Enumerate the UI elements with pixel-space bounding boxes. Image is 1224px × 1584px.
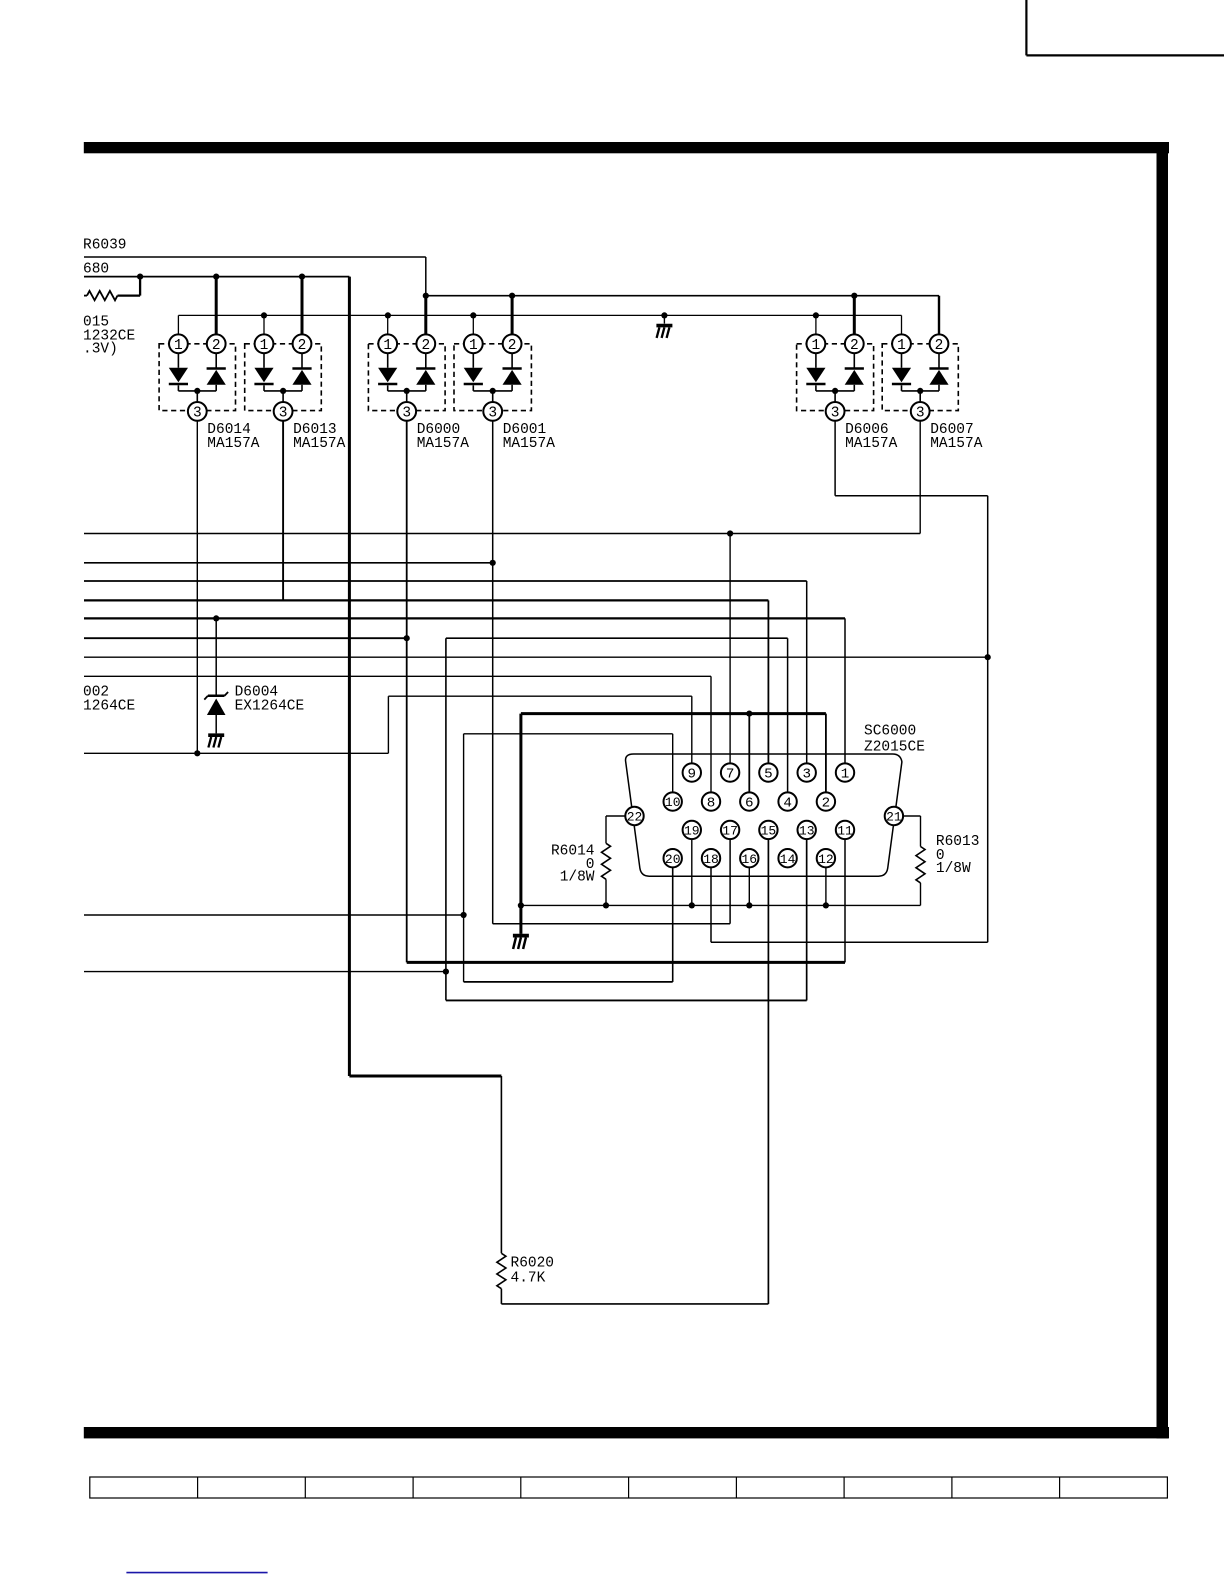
wire bus A (to D6007 pin3, pin7) <box>84 534 920 764</box>
label D6002 (cut) <box>83 685 109 701</box>
junction dot <box>443 969 449 975</box>
wire pin13 drop <box>806 839 808 1000</box>
svg-text:7: 7 <box>726 767 735 783</box>
connector pin 19 <box>683 821 701 839</box>
svg-text:680: 680 <box>83 262 109 278</box>
junction dot <box>461 912 467 918</box>
connector pin 2 <box>817 792 835 811</box>
svg-text:1: 1 <box>260 338 269 354</box>
connector pin 15 <box>759 821 777 839</box>
label 4.7K <box>511 1271 546 1287</box>
wire D6000 pin3 riser <box>406 421 408 963</box>
wire ground feed thick <box>521 714 826 934</box>
svg-text:2: 2 <box>935 338 944 354</box>
svg-text:R6020: R6020 <box>511 1256 555 1272</box>
border frame bottom bar <box>84 1427 1169 1438</box>
connector pin 1 <box>836 763 854 782</box>
label R6039 <box>83 238 127 254</box>
connector SC6000 outline <box>626 754 902 876</box>
wire D6006 pin3 route <box>711 421 988 943</box>
label EX1264CE <box>235 699 305 715</box>
connector pin 9 <box>683 763 701 782</box>
svg-text:MA157A: MA157A <box>417 436 470 452</box>
dual diode D6014 <box>159 334 235 421</box>
label EX1232CE (cut) <box>83 329 135 345</box>
svg-text:11: 11 <box>837 823 853 838</box>
svg-text:MA157A: MA157A <box>503 436 556 452</box>
svg-text:1264CE: 1264CE <box>83 699 135 715</box>
svg-text:MA157A: MA157A <box>845 436 898 452</box>
junction dot <box>746 902 752 908</box>
svg-text:6: 6 <box>745 796 754 812</box>
wire bus G (to D6006 net) <box>84 656 988 658</box>
connector pin 4 <box>778 792 796 811</box>
junction dot <box>661 312 667 318</box>
svg-text:12: 12 <box>818 852 834 867</box>
svg-text:15: 15 <box>761 823 777 838</box>
label D6004 <box>235 685 279 701</box>
revision table <box>90 1477 1168 1498</box>
dual diode D6000 <box>368 334 445 421</box>
junction dot <box>137 274 143 280</box>
wire pin16 drop <box>748 867 750 905</box>
wire thick riser D6014 pin2 <box>215 277 218 335</box>
wire net pin 11 thick <box>407 839 845 962</box>
junction dot <box>299 274 305 280</box>
wire bus H (to pin 8) <box>84 676 711 792</box>
wire net pin2 row <box>426 295 939 297</box>
wire D6001 pin3 riser <box>493 421 730 924</box>
junction dot <box>385 312 391 318</box>
svg-text:14: 14 <box>780 852 796 867</box>
junction dot <box>518 902 524 908</box>
junction dot <box>509 293 515 299</box>
connector pin 10 <box>664 792 682 810</box>
svg-text:3: 3 <box>916 405 925 421</box>
junction dot <box>851 293 857 299</box>
wire thick net to R6020 <box>349 277 501 1076</box>
border frame top bar <box>84 142 1169 153</box>
svg-text:3: 3 <box>402 405 411 421</box>
svg-text:4: 4 <box>783 796 792 812</box>
wire net pin1 ground row <box>178 315 901 334</box>
junction dot <box>689 902 695 908</box>
connector pin 3 <box>798 763 816 782</box>
wire pin15 drop <box>767 839 769 1304</box>
resistor R6020 <box>497 839 769 1304</box>
resistor R6039 <box>84 277 140 301</box>
svg-text:2: 2 <box>212 338 221 354</box>
junction dot <box>423 293 429 299</box>
wire D6014 pin3 riser <box>196 421 198 754</box>
wire bus B (to D6001 pin3) <box>84 562 493 564</box>
wire net pins 10-20 <box>464 734 673 982</box>
svg-text:2: 2 <box>850 338 859 354</box>
svg-text:3: 3 <box>802 767 811 783</box>
svg-text:3: 3 <box>831 405 840 421</box>
connector pin 14 <box>778 849 796 867</box>
label EX1264CE D6002 (cut) <box>83 699 135 715</box>
wire ground bus <box>521 904 921 906</box>
junction dot <box>213 615 219 621</box>
junction dot <box>603 902 609 908</box>
dual diode D6006 <box>797 334 874 421</box>
label R6014 <box>551 844 595 886</box>
svg-text:3: 3 <box>488 405 497 421</box>
resistor R6013 <box>903 816 925 905</box>
connector pin 7 <box>721 763 739 782</box>
svg-text:MA157A: MA157A <box>930 436 983 452</box>
svg-text:16: 16 <box>741 852 757 867</box>
connector pin 6 <box>740 792 758 811</box>
svg-text:1: 1 <box>897 338 906 354</box>
junction dot <box>823 902 829 908</box>
label D6013 <box>293 422 346 452</box>
connector pin 13 <box>798 821 816 839</box>
connector pin 17 <box>721 821 739 839</box>
chassis ground (D6004) <box>208 735 224 747</box>
svg-text:20: 20 <box>665 852 681 867</box>
svg-text:1: 1 <box>174 338 183 354</box>
wire pin12 drop <box>825 867 827 905</box>
svg-text:2: 2 <box>822 796 831 812</box>
junction dot <box>746 711 752 717</box>
border frame right bar <box>1157 142 1169 1438</box>
junction dot <box>194 750 200 756</box>
junction dot <box>490 560 496 566</box>
connector pin 8 <box>702 792 720 811</box>
junction dot <box>727 530 733 536</box>
svg-text:3: 3 <box>279 405 288 421</box>
svg-text:17: 17 <box>722 823 738 838</box>
svg-text:1/8W: 1/8W <box>936 861 971 877</box>
junction dot <box>404 635 410 641</box>
wire thick riser D6006 pin2 <box>853 296 856 335</box>
svg-text:SC6000: SC6000 <box>864 724 916 740</box>
label D6014 <box>207 422 260 452</box>
label D6015 (cut) <box>83 315 109 331</box>
svg-text:18: 18 <box>703 852 719 867</box>
corner note box (top right) <box>1026 0 1224 55</box>
label 5.3V (cut) <box>83 342 118 358</box>
connector pin 22 <box>625 807 643 825</box>
wire bus C (to pin 3) <box>84 581 807 763</box>
label 680 <box>83 262 109 278</box>
svg-text:5: 5 <box>764 767 773 783</box>
junction dot <box>985 654 991 660</box>
wire D6013 pin3 riser <box>282 421 284 601</box>
junction dot <box>261 312 267 318</box>
wire bus J (to pins 10,20) <box>84 914 464 916</box>
wire bus D (to pin 5) <box>84 600 768 763</box>
wire net R6039 top <box>84 257 426 296</box>
svg-text:2: 2 <box>421 338 430 354</box>
svg-text:3: 3 <box>193 405 202 421</box>
wire D6007 pin3 riser <box>919 421 921 534</box>
label D6006 <box>845 422 898 452</box>
footer blue rule <box>126 1572 267 1574</box>
svg-text:10: 10 <box>665 795 681 810</box>
svg-text:1: 1 <box>812 338 821 354</box>
dual diode D6007 <box>882 334 958 421</box>
svg-text:2: 2 <box>298 338 307 354</box>
svg-text:EX1264CE: EX1264CE <box>235 699 305 715</box>
svg-text:8: 8 <box>707 796 716 812</box>
svg-text:4.7K: 4.7K <box>511 1271 546 1287</box>
wire thick riser D6013 pin2 <box>301 277 304 335</box>
label R6013 <box>936 834 980 877</box>
chassis ground (connector) <box>513 936 529 949</box>
connector pin 16 <box>740 849 758 867</box>
svg-text:21: 21 <box>886 810 902 825</box>
wire thick riser D6001 pin2 <box>511 296 514 335</box>
svg-text:22: 22 <box>627 810 643 825</box>
wire bus I (to pin 9) <box>84 696 692 763</box>
wire bus K (to pins 4,13) <box>84 971 446 973</box>
connector pin 12 <box>817 849 835 867</box>
junction dot <box>470 312 476 318</box>
dual diode D6001 <box>454 334 531 421</box>
svg-text:1: 1 <box>841 767 850 783</box>
wire riser D6007 pin2 <box>938 296 940 335</box>
resistor R6014 <box>602 816 626 905</box>
wire bus E (to pin 1) <box>84 618 845 763</box>
wire thick riser D6000 pin2 <box>424 296 427 335</box>
label R6020 <box>511 1256 555 1272</box>
svg-text:9: 9 <box>688 767 697 783</box>
svg-text:1: 1 <box>383 338 392 354</box>
svg-text:13: 13 <box>799 823 815 838</box>
connector pin 5 <box>759 763 777 782</box>
svg-text:Z2015CE: Z2015CE <box>864 739 925 755</box>
connector pin 21 <box>885 807 903 825</box>
junction dot <box>213 274 219 280</box>
wire bus F (to D6000 pin3) <box>84 637 407 639</box>
junction dot <box>813 312 819 318</box>
wire net 680 bus <box>84 276 349 278</box>
svg-text:19: 19 <box>684 823 700 838</box>
connector pin 18 <box>702 849 720 867</box>
wire pin20 drop <box>672 867 674 982</box>
svg-text:.3V): .3V) <box>83 342 118 358</box>
label D6000 <box>417 422 470 452</box>
connector pin 11 <box>836 821 854 839</box>
wire pin19 drop <box>691 839 693 905</box>
svg-text:MA157A: MA157A <box>207 436 260 452</box>
connector pin 20 <box>664 849 682 867</box>
wire net pins 4-13 <box>446 638 807 1000</box>
svg-text:1/8W: 1/8W <box>560 870 595 886</box>
label D6007 <box>930 422 983 452</box>
chassis ground (pin1 net) <box>656 326 672 338</box>
zener diode D6004 <box>204 618 228 733</box>
svg-text:1: 1 <box>469 338 478 354</box>
label D6001 <box>503 422 556 452</box>
svg-text:2: 2 <box>508 338 517 354</box>
svg-text:MA157A: MA157A <box>293 436 346 452</box>
dual diode D6013 <box>245 334 322 421</box>
label SC6000 <box>864 724 925 756</box>
svg-text:R6039: R6039 <box>83 238 127 254</box>
